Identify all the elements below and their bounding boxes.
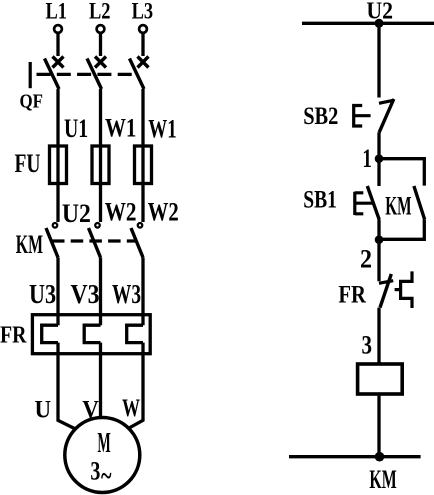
svg-text:V3: V3 [71, 279, 100, 309]
svg-text:V: V [82, 396, 99, 423]
svg-text:W1: W1 [105, 114, 136, 143]
svg-text:L2: L2 [89, 0, 111, 23]
svg-text:QF: QF [20, 91, 44, 113]
svg-text:W1: W1 [148, 115, 176, 144]
svg-text:3: 3 [90, 456, 100, 485]
svg-text:U2: U2 [62, 199, 91, 228]
svg-text:W2: W2 [148, 198, 179, 227]
svg-text:SB2: SB2 [303, 103, 338, 130]
svg-text:3: 3 [362, 330, 373, 359]
svg-text:W2: W2 [105, 198, 137, 227]
svg-text:FR: FR [338, 281, 366, 308]
svg-text:U: U [35, 396, 52, 423]
svg-text:KM: KM [385, 192, 411, 221]
svg-text:U1: U1 [64, 114, 88, 143]
svg-text:FR: FR [0, 323, 27, 349]
svg-text:L1: L1 [46, 0, 68, 23]
svg-text:W: W [122, 395, 140, 422]
svg-text:U3: U3 [29, 279, 56, 309]
svg-text:KM: KM [16, 230, 43, 259]
svg-text:~: ~ [101, 460, 112, 493]
svg-text:L3: L3 [132, 0, 154, 23]
svg-text:KM: KM [369, 465, 396, 494]
svg-text:M: M [97, 427, 110, 459]
svg-text:W3: W3 [112, 279, 141, 309]
svg-text:FU: FU [15, 149, 41, 178]
svg-text:1: 1 [362, 144, 372, 173]
svg-text:SB1: SB1 [303, 187, 337, 214]
svg-text:U2: U2 [366, 0, 393, 24]
svg-text:2: 2 [360, 245, 372, 274]
